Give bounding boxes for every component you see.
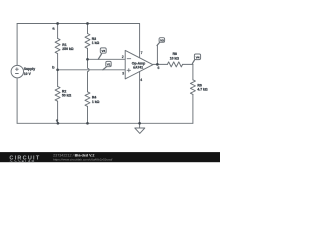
wire top rail <box>17 23 140 25</box>
wire bottom rail <box>17 122 193 124</box>
wire V3 stub above output <box>156 46 158 65</box>
op-amp plus sign <box>127 69 130 72</box>
voltage source minus sign <box>16 73 19 75</box>
svg-text:10 kΩ: 10 kΩ <box>170 56 180 60</box>
resistor R4 zigzag <box>85 92 90 107</box>
wire left rail upper <box>16 24 18 66</box>
flag V3 leader (output) <box>157 43 160 46</box>
svg-text:V4: V4 <box>196 55 200 59</box>
svg-text:2: 2 <box>122 55 124 59</box>
svg-text:3: 3 <box>122 72 124 76</box>
svg-text:10 V: 10 V <box>24 72 32 76</box>
wire branch1 mid <box>57 54 59 87</box>
wire left rail lower <box>16 78 18 124</box>
svg-text:V3: V3 <box>102 49 106 53</box>
resistor R1 zigzag <box>55 38 60 53</box>
junction branch2 pin2 dot <box>86 58 89 61</box>
wire pin7 supply from top rail <box>139 24 141 58</box>
junction node a dot <box>56 22 59 25</box>
junction output stub dot <box>156 63 159 66</box>
svg-text:4: 4 <box>140 78 142 82</box>
flag V1 leader <box>103 67 107 70</box>
wire right branch lower <box>192 94 194 123</box>
wire output segment 1 <box>153 63 168 65</box>
flag V1 box <box>106 61 111 66</box>
ground stub <box>139 123 141 128</box>
op-amp U1 triangle <box>125 50 153 79</box>
junction ground rail dot <box>138 122 141 125</box>
wire branch2 mid with hop over node-b wire <box>88 48 90 91</box>
svg-text:1 kΩ: 1 kΩ <box>92 100 100 104</box>
flag V4 leader <box>192 60 194 64</box>
wire right branch upper <box>192 64 194 79</box>
wire output segment 2 <box>183 63 193 65</box>
junction branch2 top dot <box>86 22 89 25</box>
ground triangle <box>135 128 145 133</box>
wire branch2 upper <box>87 24 89 34</box>
flag V4 box <box>194 54 200 60</box>
svg-text:uA741: uA741 <box>133 66 143 70</box>
op-amp minus sign <box>127 58 131 60</box>
junction branch2 bottom dot <box>86 122 89 125</box>
svg-text:250 kΩ: 250 kΩ <box>62 47 73 51</box>
wire pin3 input from node b <box>58 69 126 71</box>
svg-text:∿∿∿■LAB: ∿∿∿■LAB <box>9 158 35 163</box>
resistor R3 zigzag <box>85 34 90 49</box>
voltage source plus sign <box>16 68 19 71</box>
svg-text:50 kΩ: 50 kΩ <box>62 94 72 98</box>
svg-text:4.7 kΩ: 4.7 kΩ <box>197 88 208 92</box>
svg-text:V3: V3 <box>160 39 164 43</box>
svg-text:https://www.circuitlab.com/c6q: https://www.circuitlab.com/c6q48b2z53uad… <box>53 157 112 161</box>
svg-text:V1: V1 <box>107 62 111 66</box>
junction node b dot <box>56 68 59 71</box>
voltage source V5 Supply circle <box>11 65 23 77</box>
flag V3 box (input wire) <box>100 48 106 53</box>
resistor R2 zigzag <box>55 86 60 101</box>
svg-text:7: 7 <box>141 51 143 55</box>
wire pin4 to ground rail <box>139 72 141 124</box>
flag V3 box (output) <box>159 38 165 43</box>
svg-text:1 kΩ: 1 kΩ <box>92 41 100 45</box>
wire branch2 lower <box>87 106 89 123</box>
junction node c dot <box>57 122 60 125</box>
wire branch1 upper <box>57 24 59 39</box>
footer black bar <box>0 152 220 162</box>
svg-text:6: 6 <box>158 66 160 70</box>
svg-text:Supply: Supply <box>24 67 35 71</box>
resistor R8 zigzag <box>167 62 182 67</box>
wire branch1 lower <box>57 101 59 123</box>
wire pin2 input <box>88 58 126 60</box>
resistor R6 zigzag <box>190 80 195 95</box>
flag V3 leader (input wire) <box>98 54 101 59</box>
